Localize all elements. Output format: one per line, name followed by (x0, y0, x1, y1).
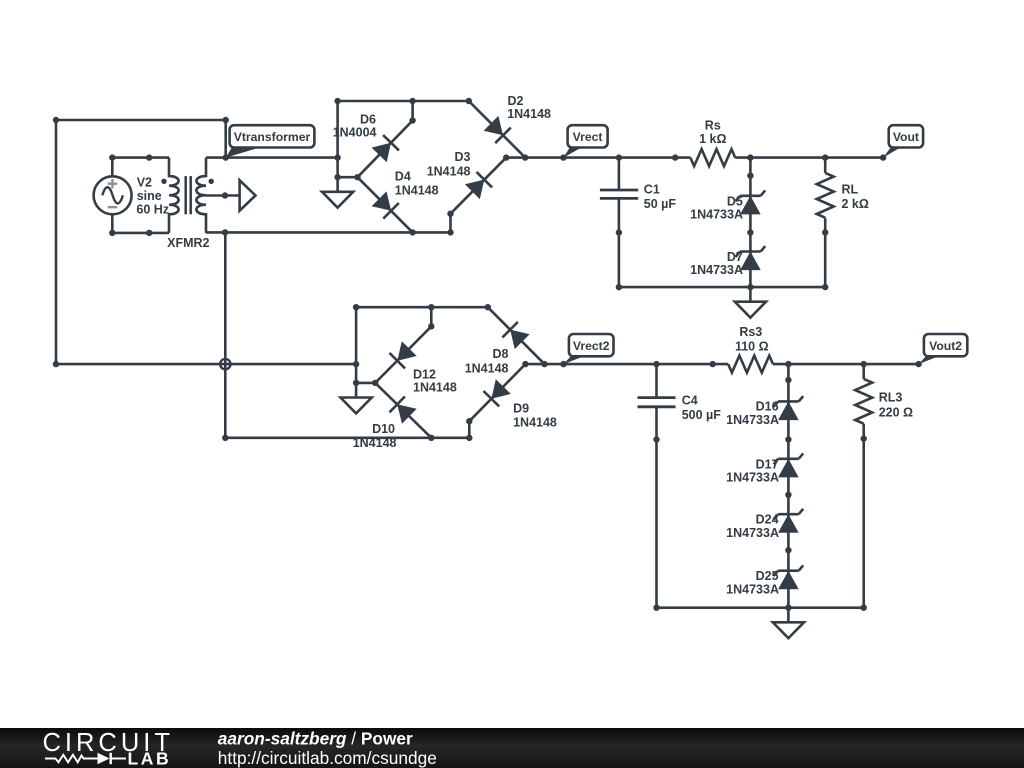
svg-text:C4: C4 (682, 393, 698, 407)
svg-text:1N4733A: 1N4733A (726, 526, 779, 540)
svg-text:1N4148: 1N4148 (427, 165, 471, 179)
wire (619, 286, 825, 289)
resistor Rs3 (728, 325, 773, 373)
junction (653, 605, 659, 611)
junction (880, 154, 886, 160)
junction (785, 436, 791, 442)
junction (447, 211, 453, 217)
junction (822, 229, 828, 235)
wire (787, 364, 790, 608)
junction (354, 174, 360, 180)
wire (206, 156, 338, 159)
ground (322, 177, 353, 208)
svg-text:220 Ω: 220 Ω (879, 406, 913, 420)
svg-text:D5: D5 (727, 194, 743, 208)
svg-text:LAB: LAB (128, 749, 172, 768)
junction (447, 229, 453, 235)
wire (506, 156, 690, 159)
junction (485, 304, 491, 310)
junction (915, 361, 921, 367)
diode D12 (375, 326, 457, 394)
net flag Vrect2 (564, 334, 614, 364)
wire (657, 606, 864, 609)
zener diode D5 (690, 190, 765, 221)
junction (560, 361, 566, 367)
svg-text:1N4733A: 1N4733A (726, 413, 779, 427)
junction (53, 361, 59, 367)
zener diode D25 (726, 565, 803, 596)
junction (428, 323, 434, 329)
svg-text:60 Hz: 60 Hz (136, 202, 169, 216)
wire (56, 363, 356, 366)
junction (785, 547, 791, 553)
junction (223, 117, 229, 123)
svg-text:Rs: Rs (705, 119, 721, 133)
wire (449, 214, 452, 233)
net flag Vrect (563, 125, 607, 157)
diode D4 (358, 169, 439, 232)
resistor Rs (690, 119, 735, 167)
svg-text:Vrect: Vrect (573, 130, 603, 144)
svg-text:XFMR2: XFMR2 (167, 236, 209, 250)
wire (338, 176, 358, 179)
junction (222, 229, 228, 235)
junction (747, 284, 753, 290)
junction (861, 361, 867, 367)
zener diode D24 (726, 509, 803, 540)
junction (672, 154, 678, 160)
wire (112, 156, 169, 159)
svg-text:D6: D6 (360, 112, 376, 126)
svg-text:1N4148: 1N4148 (513, 416, 557, 430)
diode D9 (469, 364, 557, 430)
diode D2 (469, 94, 551, 158)
ground (735, 287, 766, 318)
crossover node (220, 359, 230, 369)
svg-text:RL3: RL3 (879, 391, 903, 405)
CircuitLab logo (43, 729, 174, 768)
diode D8 (465, 307, 545, 375)
wire (56, 119, 226, 122)
junction (353, 380, 359, 386)
junction (146, 230, 152, 236)
svg-text:D10: D10 (372, 422, 395, 436)
svg-text:Rs3: Rs3 (739, 325, 762, 339)
svg-text:V2: V2 (137, 176, 152, 190)
junction (466, 435, 472, 441)
junction (541, 361, 547, 367)
junction (222, 435, 228, 441)
footer title (218, 728, 413, 748)
wire (206, 231, 451, 234)
svg-text:C1: C1 (644, 183, 660, 197)
wire (411, 101, 414, 121)
ground (341, 383, 372, 414)
diode D10 (353, 383, 432, 450)
wire (735, 156, 883, 159)
net flag Vtransformer (226, 125, 315, 157)
junction (409, 229, 415, 235)
junction (710, 361, 716, 367)
junction (747, 154, 753, 160)
wire (55, 120, 58, 364)
svg-text:D12: D12 (413, 367, 436, 381)
junction (372, 380, 378, 386)
junction (861, 435, 867, 441)
junction (616, 284, 622, 290)
net flag Vout2 (919, 334, 968, 364)
svg-text:110 Ω: 110 Ω (735, 339, 769, 353)
svg-text:D17: D17 (756, 457, 779, 471)
junction (653, 361, 659, 367)
svg-text:1N4733A: 1N4733A (726, 582, 779, 596)
junction (409, 117, 415, 123)
junction (822, 154, 828, 160)
junction (428, 304, 434, 310)
junction (616, 229, 622, 235)
svg-text:sine: sine (137, 189, 162, 203)
ground (773, 608, 804, 639)
junction (522, 154, 528, 160)
svg-text:Vout: Vout (893, 130, 919, 144)
diode D6 (333, 112, 413, 177)
junction (785, 492, 791, 498)
junction (785, 377, 791, 383)
junction (353, 361, 359, 367)
junction (747, 173, 753, 179)
svg-text:RL: RL (842, 183, 859, 197)
svg-text:D16: D16 (756, 400, 779, 414)
wire (468, 421, 471, 438)
wire (225, 436, 469, 439)
svg-text:D9: D9 (513, 401, 529, 415)
wire (355, 307, 358, 383)
wire (356, 382, 375, 385)
wire (336, 101, 339, 177)
svg-text:D24: D24 (756, 513, 779, 527)
footer url (218, 748, 437, 768)
svg-text:1N4148: 1N4148 (395, 183, 439, 197)
junction (409, 98, 415, 104)
zener diode D17 (726, 453, 803, 484)
junction (861, 605, 867, 611)
wire (773, 363, 919, 366)
resistor RL (817, 158, 869, 288)
svg-text:D3: D3 (455, 150, 471, 164)
svg-text:http://circuitlab.com/csundge: http://circuitlab.com/csundge (218, 748, 437, 768)
transformer XFMR2 (161, 158, 214, 250)
junction (653, 436, 659, 442)
wire (224, 120, 227, 158)
wire (430, 307, 433, 326)
resistor RL3 (855, 364, 913, 608)
junction (109, 230, 115, 236)
diode D3 (427, 150, 506, 214)
svg-text:1N4148: 1N4148 (507, 107, 551, 121)
wire (525, 363, 544, 366)
wire (112, 232, 169, 235)
capacitor C4 (638, 364, 722, 608)
junction (353, 304, 359, 310)
svg-text:Vtransformer: Vtransformer (234, 130, 311, 144)
svg-text:aaron-saltzberg / Power: aaron-saltzberg / Power (218, 728, 413, 748)
junction (223, 154, 229, 160)
junction (428, 435, 434, 441)
svg-text:1N4733A: 1N4733A (690, 208, 743, 222)
wire (545, 363, 729, 366)
svg-text:D25: D25 (756, 569, 779, 583)
center-tap pointer (206, 180, 256, 211)
junction (334, 174, 340, 180)
svg-text:D8: D8 (493, 347, 509, 361)
junction (334, 154, 340, 160)
svg-text:D2: D2 (508, 94, 524, 108)
svg-text:D4: D4 (395, 169, 411, 183)
voltage source V2 (94, 158, 169, 233)
junction (522, 361, 528, 367)
svg-text:1N4148: 1N4148 (413, 381, 457, 395)
junction (466, 418, 472, 424)
wire (224, 232, 227, 437)
junction (146, 154, 152, 160)
svg-text:2 kΩ: 2 kΩ (842, 197, 869, 211)
junction (785, 361, 791, 367)
junction (560, 154, 566, 160)
junction (785, 605, 791, 611)
junction (616, 154, 622, 160)
junction (109, 154, 115, 160)
junction (747, 229, 753, 235)
svg-text:1 kΩ: 1 kΩ (699, 132, 726, 146)
wire (338, 100, 469, 103)
wire (749, 158, 752, 288)
junction (822, 284, 828, 290)
capacitor C1 (600, 158, 676, 288)
svg-text:1N4733A: 1N4733A (690, 263, 743, 277)
footer bar (0, 728, 1024, 768)
junction (466, 98, 472, 104)
wire (356, 306, 488, 309)
svg-text:1N4148: 1N4148 (465, 361, 509, 375)
zener diode D7 (690, 246, 765, 277)
net flag Vout (883, 125, 923, 157)
svg-text:Vout2: Vout2 (929, 339, 962, 353)
junction (53, 117, 59, 123)
svg-text:1N4733A: 1N4733A (726, 471, 779, 485)
svg-text:1N4004: 1N4004 (333, 126, 377, 140)
zener diode D16 (726, 396, 803, 427)
svg-text:D7: D7 (727, 250, 743, 264)
svg-text:500 µF: 500 µF (682, 408, 722, 422)
svg-text:Vrect2: Vrect2 (573, 339, 610, 353)
svg-text:50 µF: 50 µF (644, 197, 677, 211)
junction (334, 98, 340, 104)
junction (503, 154, 509, 160)
